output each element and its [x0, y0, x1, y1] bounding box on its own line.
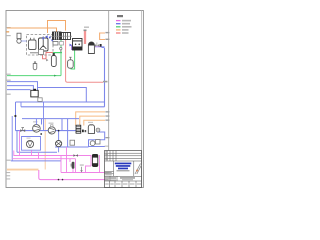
violet segment — [71, 45, 73, 50]
blue valve before stack — [70, 44, 75, 47]
legend row 4 orange — [116, 29, 121, 31]
heat exchanger block B — [62, 33, 71, 40]
small boxes below HX — [53, 42, 58, 46]
small box left — [39, 50, 44, 55]
pump circle 2 — [56, 141, 62, 147]
capsule vessel — [68, 60, 74, 68]
equipment micro labels — [49, 123, 54, 124]
blue verticals col43 — [43, 102, 45, 131]
blue left long drop — [11, 116, 13, 161]
mid band columns — [114, 161, 134, 176]
knockout drum cylinder — [88, 42, 94, 54]
revision rows — [105, 153, 142, 161]
blue line over battery to bus — [38, 88, 87, 103]
red branch left — [46, 53, 53, 59]
dashed package box — [27, 35, 54, 56]
blue verticals mid — [61, 119, 63, 131]
orange manifold line 2 — [80, 116, 105, 125]
small dark fittings — [82, 130, 84, 133]
university blue text — [115, 163, 132, 165]
valve on 172.5 line — [80, 170, 82, 172]
legend row 2 blue — [116, 23, 121, 25]
fuel-cell stack device — [73, 39, 83, 51]
magenta around vessel — [61, 166, 105, 173]
orange vertical mid — [44, 118, 46, 170]
red hook — [43, 55, 46, 59]
page background — [0, 0, 149, 198]
violet line at separator — [95, 46, 101, 48]
legend row 5 red — [116, 32, 121, 34]
orange loop right — [100, 33, 105, 40]
small boxes bottom mid — [70, 140, 75, 145]
red gauge — [84, 31, 85, 44]
blue feed 2 to battery — [7, 86, 33, 90]
node dot — [14, 115, 16, 117]
heat exchanger block A — [53, 32, 62, 40]
green vertical — [60, 40, 62, 76]
zone divider line — [108, 11, 110, 151]
divider ticks — [105, 32, 109, 33]
blue nest left vertical — [17, 131, 57, 153]
magenta h1 — [14, 151, 91, 167]
inner pump rect — [22, 137, 41, 151]
dumbbell on green — [60, 48, 62, 52]
rev row marks — [105, 150, 108, 153]
compressor 1 — [33, 125, 41, 133]
blue valve row small — [43, 35, 48, 40]
magenta stubs — [32, 150, 39, 159]
blue header y118 — [22, 118, 79, 120]
green branch — [53, 52, 62, 54]
compressor 2 — [48, 127, 55, 134]
flask — [33, 64, 37, 70]
adsorber canister — [51, 56, 56, 67]
orange feed line top — [7, 28, 57, 34]
legend row 1 magenta — [116, 20, 121, 22]
blue pump row — [16, 130, 76, 132]
magenta h2 — [12, 158, 76, 160]
blower loop — [89, 132, 106, 147]
gray box at bus start — [38, 98, 42, 102]
vessel in box left — [29, 40, 37, 50]
blue row y147 — [55, 146, 89, 148]
magenta squarewave — [61, 147, 76, 173]
blue nest wide — [11, 160, 61, 162]
blue bus upper — [16, 101, 105, 103]
left border stream ticks — [6, 27, 11, 28]
small circle fitting — [96, 128, 100, 132]
green column right — [71, 48, 75, 70]
legend title — [117, 15, 123, 17]
small drum — [88, 124, 94, 133]
blue feed 1 to battery — [7, 82, 38, 90]
orange manifold line 3 — [84, 120, 105, 125]
inline filter — [72, 162, 75, 169]
pump2 riser — [58, 147, 60, 152]
black element near divider — [100, 44, 102, 47]
left col text smudges — [105, 171, 112, 174]
valve left of canister — [46, 59, 48, 62]
control valve row — [20, 129, 25, 132]
pump circle 1 — [26, 140, 33, 147]
sheet frame — [6, 11, 143, 188]
bottom cells — [110, 181, 137, 188]
magenta drop bottom-left — [39, 170, 105, 180]
storage vessel bottom — [92, 155, 97, 167]
feed stack left — [17, 33, 21, 38]
electrolyzer battery — [31, 90, 38, 97]
blue top corner — [102, 47, 105, 49]
blue return vertical — [104, 48, 106, 107]
green long line — [7, 75, 61, 77]
blue bus lower — [21, 106, 105, 108]
valve on magenta h1 — [73, 154, 78, 157]
reactor in box — [39, 38, 49, 51]
blue drop left — [15, 102, 17, 131]
tiny label under box — [30, 52, 38, 53]
magenta line pair left — [19, 131, 21, 156]
magenta vessel right — [99, 155, 101, 173]
blue vertical right of compressor — [58, 131, 60, 141]
orange manifold line 1 — [76, 112, 105, 126]
blue feed 3 to battery — [7, 89, 31, 91]
heater striped block — [76, 125, 81, 133]
logo diagonal — [135, 164, 142, 175]
bus riser — [20, 102, 22, 107]
lower band — [105, 176, 142, 181]
legend row 3 green — [116, 26, 121, 28]
small valve right of drum — [95, 44, 99, 46]
red long line — [66, 40, 103, 82]
title block outer — [105, 151, 142, 188]
orange bottom bar — [7, 169, 39, 171]
orange line upper — [48, 21, 66, 34]
